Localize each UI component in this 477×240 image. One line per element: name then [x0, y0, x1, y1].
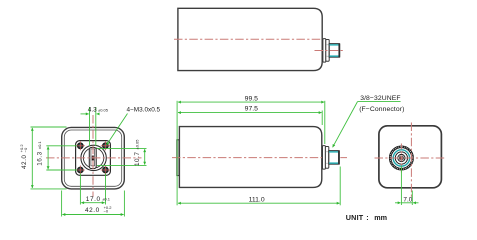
svg-text:3/8−32UNEF: 3/8−32UNEF [360, 95, 400, 102]
top view connector washer [323, 39, 326, 63]
svg-text:10.7: 10.7 [134, 152, 141, 166]
side view thread stub [329, 151, 339, 164]
back view circle centerline vertical [400, 144, 402, 173]
side view nut facet lines [326, 151, 329, 153]
dimension 99.5 [178, 95, 325, 144]
mounting hole BR [101, 165, 110, 174]
svg-text:(F−Connector): (F−Connector) [359, 106, 404, 113]
svg-text:42.0: 42.0 [85, 207, 100, 214]
top view thread stub [329, 44, 339, 57]
back view pin ring [399, 156, 403, 160]
label 4-M3.0x0.5 [107, 107, 161, 146]
svg-text:UNIT: UNIT [346, 213, 364, 222]
back view centerline horizontal [375, 157, 447, 159]
front view centerline vertical [92, 115, 94, 197]
top view body [178, 8, 322, 70]
svg-text:±0.05: ±0.05 [98, 107, 109, 112]
front view flange [76, 141, 111, 176]
shared extension line left [176, 101, 178, 206]
back view thread circle [393, 150, 409, 166]
back view knurled nut ring [390, 147, 412, 169]
back view center pin [400, 157, 403, 160]
dimension 17.0 [80, 174, 110, 205]
front view outer circle [81, 145, 106, 170]
svg-text:111.0: 111.0 [249, 197, 265, 204]
front view contact [92, 156, 94, 161]
top view nut facet lines [326, 44, 329, 46]
back view centerline vertical [410, 123, 412, 200]
dimension 4.3 [81, 107, 109, 146]
mounting hole TL [76, 141, 85, 150]
top view body centerline [174, 38, 325, 40]
svg-text:±0.05: ±0.05 [135, 139, 140, 150]
svg-text:97.5: 97.5 [245, 106, 258, 113]
svg-text:42.0: 42.0 [21, 155, 28, 169]
back view inner circle [398, 154, 405, 161]
svg-text::: : [366, 213, 368, 222]
mounting hole TR [101, 141, 110, 150]
front view outer square [62, 127, 125, 188]
leader 3/8-32UNEF [333, 95, 405, 147]
side view connector washer [323, 146, 326, 170]
svg-text:±0.1: ±0.1 [37, 141, 42, 150]
back view connector circle [395, 152, 407, 164]
svg-text:17.0: 17.0 [86, 196, 101, 203]
mounting hole BL [76, 165, 85, 174]
dimension 111.0 [178, 167, 340, 206]
svg-text:−0: −0 [104, 209, 109, 214]
back view square [379, 126, 442, 188]
dimension 42.0 bottom [62, 191, 125, 217]
dimension 16.3 [37, 141, 78, 170]
dimension 42.0 left [19, 127, 66, 189]
side view connector nut [325, 147, 328, 169]
top view connector centerline [315, 50, 344, 52]
svg-text:4−M3.0x0.5: 4−M3.0x0.5 [127, 107, 161, 114]
top view connector nut [326, 40, 329, 62]
dimension 97.5 [178, 106, 322, 125]
dimension 7.0 [395, 166, 419, 205]
svg-text:16.3: 16.3 [37, 151, 44, 165]
svg-text:−0: −0 [23, 147, 28, 152]
svg-text:99.5: 99.5 [245, 95, 258, 102]
side view body [179, 127, 321, 188]
dimension 10.7 [97, 139, 147, 166]
front view inner chamfer line [64, 130, 121, 186]
front view centerline horizontal [46, 157, 142, 159]
front view slot inner [91, 149, 95, 166]
front view slot outer [89, 147, 96, 168]
svg-text:±0.1: ±0.1 [102, 197, 111, 202]
svg-text:4.3: 4.3 [88, 107, 97, 114]
svg-text:mm: mm [374, 213, 387, 222]
front view inner circle [83, 148, 103, 168]
side view body centerline [172, 157, 347, 159]
side view flange plate [177, 140, 180, 176]
svg-text:7.0: 7.0 [403, 197, 412, 204]
